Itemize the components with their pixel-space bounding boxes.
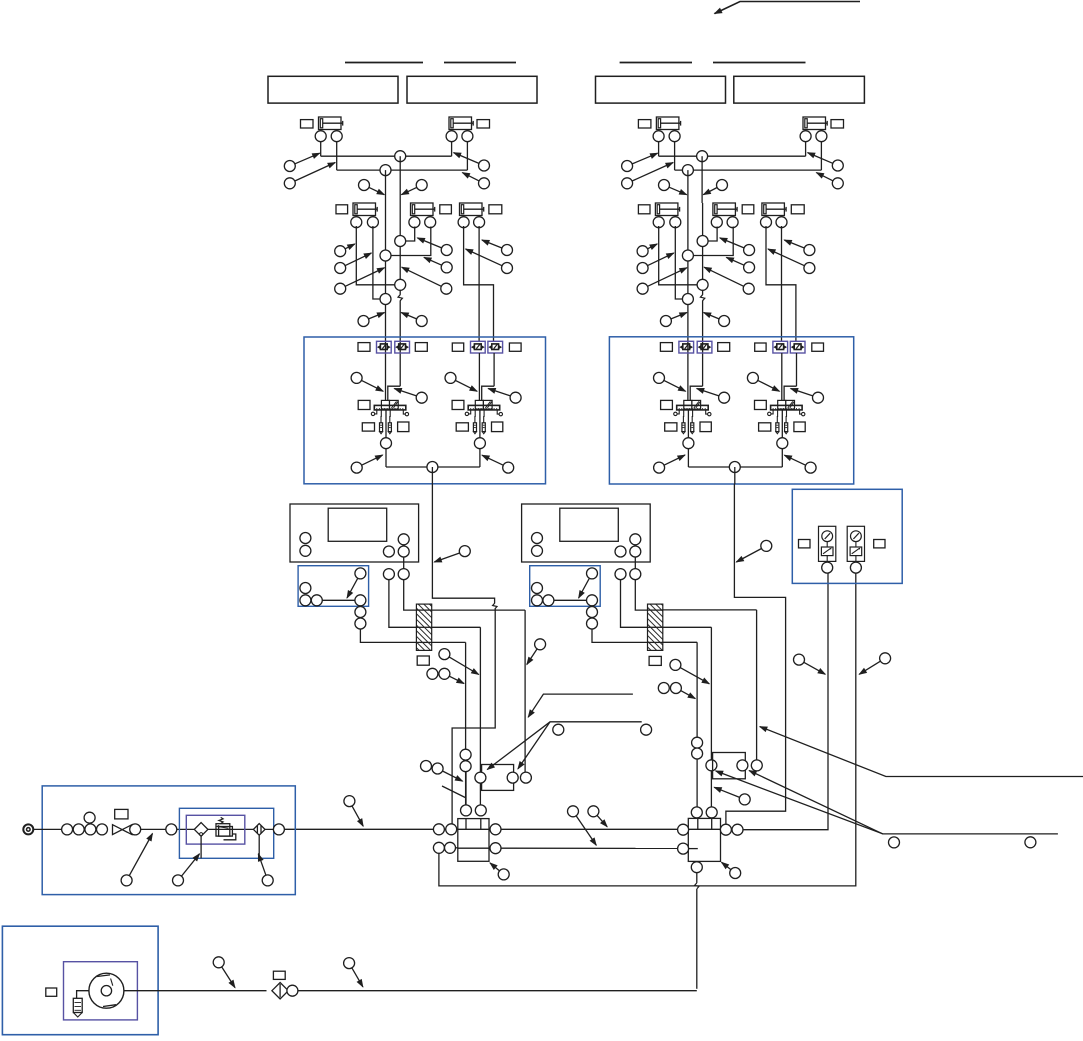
bus wire 1 [659,155,806,157]
balloon pair [421,761,432,772]
cylinder (mid left) [653,203,681,228]
shutoff valve [113,825,123,835]
solenoid valve 1 [371,400,408,433]
union manifold left [482,765,514,791]
outlet bus [386,466,480,468]
balloon tee top [475,805,486,816]
balloon [532,545,543,556]
quick-disconnect [395,341,410,353]
callout [622,163,674,189]
wire down [756,610,758,760]
wire [634,545,636,569]
wire [674,142,676,170]
callout [284,163,335,189]
balloon inline [697,236,708,247]
balloon inline [380,294,391,305]
label [700,422,711,432]
wire [663,609,757,611]
callout [568,806,597,846]
callout [358,313,385,327]
balloon tee right [720,824,731,835]
bus wire [501,828,678,830]
balloon [398,546,409,557]
stray leader segment [442,786,465,798]
callout [490,863,509,880]
wire down [687,170,689,203]
supply wire [399,301,401,387]
callout [121,834,152,886]
cylinder label [336,205,348,214]
balloon [587,607,598,618]
wire [658,142,660,157]
bus wire [501,847,678,849]
label [492,422,503,432]
callout [654,455,685,473]
line break [700,295,704,301]
wire to gland [404,580,417,611]
tee drain to gauge 2 line [439,573,856,886]
cylinder label [638,205,650,214]
callout [670,659,709,683]
cylinder (mid center) [711,203,738,228]
cylinder label [791,205,804,214]
supply wire [781,353,783,400]
wire balloon to cyl2 port [708,227,717,242]
callout [768,249,815,274]
callout [726,257,754,273]
callout [439,668,464,683]
label [398,422,409,432]
solenoid valve 2 [768,400,805,433]
callout [335,253,372,274]
callout [720,238,755,256]
leader A to page edge [760,727,1083,777]
callout [784,240,815,256]
wire to gland [592,629,648,642]
balloon tee left [678,824,689,835]
pump assembly box [2,926,158,1034]
label [358,343,370,352]
quick-disconnect [697,341,712,353]
balloon [85,824,96,835]
wire to box edge [734,467,736,484]
callout [173,854,200,886]
label [273,971,285,979]
balloon union port [737,760,748,771]
callout [488,389,521,404]
balloon [300,583,311,594]
cylinder label [638,120,651,128]
label [509,343,521,351]
wire cyl3 port2 [478,226,480,341]
balloon inline [395,236,406,247]
pump discharge line [124,990,267,992]
balloon [355,618,366,629]
wire [320,142,322,157]
balloon [630,546,641,557]
display rect [328,508,387,541]
display rect [560,508,619,541]
callout [402,267,452,294]
balloon [73,824,84,835]
callout [466,249,513,274]
callout [714,787,750,805]
callout [401,313,427,327]
label [661,400,673,409]
wire [432,626,481,628]
bulkhead gland left [416,604,431,650]
wire [466,142,468,170]
cylinder label [301,120,314,128]
callout [722,862,741,878]
sensor box [298,566,369,607]
label [115,809,128,819]
label [794,422,805,432]
drain wire [258,835,260,858]
wire cyl3 port2 [781,226,783,341]
wire cyl port to balloon [373,226,380,299]
label [358,400,370,409]
balloon tee right [490,824,501,835]
label [812,343,824,351]
balloon valve outlet [474,438,485,449]
callout [439,649,479,675]
wire to box edge [431,467,433,484]
callout [697,389,730,404]
balloon valve outlet [381,438,392,449]
label [456,423,468,431]
pump inner box [64,962,138,1020]
balloon pair [658,683,669,694]
valve box1 outlet pipe [432,484,494,603]
callout [736,540,772,562]
label [799,540,811,548]
balloon [532,583,543,594]
balloon [311,595,322,606]
wire down [465,642,467,805]
wire to tee [452,609,495,824]
balloon union port [475,772,486,783]
callout [351,455,382,473]
cylinder label [742,205,754,214]
regulator group box [186,815,245,844]
wire [385,449,387,467]
quick-disconnect [471,341,486,353]
callout [637,244,657,257]
balloon inline [395,279,406,290]
leader L3 with two arrows [487,722,641,770]
wire balloon to cyl2 port [391,227,431,256]
cylinder (upper right) [800,117,827,142]
balloon pair [427,668,438,679]
supply wire [399,203,401,295]
callout [637,268,687,295]
wire cyl port to balloon [675,226,682,299]
cylinder label [489,205,502,214]
callout [347,568,366,598]
label box [407,76,537,103]
control unit box [290,504,419,562]
regulator body [216,824,230,836]
wire cyl port to balloon [659,226,697,285]
label box [596,76,726,103]
label [452,343,463,351]
callout [704,313,730,327]
bus wire 2 [675,169,822,171]
cylinder label [477,120,490,128]
balloon under leader [641,724,652,735]
caption underline [345,62,423,64]
callout [527,639,546,665]
balloon tee top [691,807,702,818]
cylinder (mid right) [458,203,485,228]
cylinder label [440,205,452,214]
wire [663,641,697,643]
solenoid valve 2 [465,400,502,433]
callout [660,313,687,327]
balloon [446,824,457,835]
gland crossing segments [416,609,431,611]
wire [820,142,822,170]
supply jog wire [482,386,494,400]
valve outlet wire [781,410,783,438]
pump [89,973,124,1008]
quick-disconnect [679,341,694,353]
balloon [300,533,311,544]
wire to gland [389,580,417,628]
callout [424,257,452,273]
wire down [701,156,703,203]
callout [482,455,514,473]
regulator body 2 [219,827,233,837]
balloon [532,533,543,544]
valve module box [609,337,853,484]
callout [213,957,235,988]
title leader line [715,2,861,14]
callout [401,180,427,195]
wire [805,142,807,157]
wire [687,449,689,467]
wire cyl port to balloon [356,226,394,285]
quick-disconnect [488,341,503,353]
supply jog wire [690,386,702,400]
cylinder (mid center) [409,203,436,228]
balloon [383,569,394,580]
balloon tee right [490,843,501,854]
balloon [445,842,456,853]
valve outlet wire [479,410,481,438]
balloon under leader [1025,837,1036,848]
wire to gland [621,580,648,628]
label [874,540,885,548]
gauge panel box [792,489,902,583]
callout [659,180,687,195]
check valve [272,983,288,999]
cylinder (upper left) [315,117,343,142]
supply bus into tee [284,828,458,830]
balloon [587,595,598,606]
bus wire 2 [337,169,468,171]
balloon [383,546,394,557]
line break [398,295,402,301]
cylinder (upper right) [446,117,473,142]
control unit box [522,504,651,562]
cylinder (mid left) [351,203,379,228]
callout [434,546,470,562]
wire [403,545,405,569]
wire down [385,170,387,203]
caption underline [713,62,806,64]
balloon valve outlet [683,438,694,449]
wire down [710,627,712,807]
filter element 2 (check) [253,824,265,836]
outlet bus [688,466,782,468]
wire [336,142,338,170]
label [649,656,661,665]
balloon [398,534,409,545]
wire balloon to cyl2 port [406,227,415,242]
label [46,988,57,996]
label [417,656,429,665]
cylinder (upper left) [653,117,681,142]
callout [808,153,844,171]
callout [859,653,890,675]
valve box2 outlet pipe [726,484,786,824]
balloon on bus2 [380,165,391,176]
balloon inline [692,748,703,759]
valve outlet wire [687,410,689,438]
supply wire [796,353,798,386]
filter-regulator box [179,808,273,858]
callout [816,173,843,189]
wire [781,449,783,467]
caption underline [620,62,692,64]
callout [344,958,363,987]
balloon [166,824,177,835]
balloon [615,546,626,557]
label [415,343,427,352]
supply jog wire [388,386,400,400]
sensor box [530,566,601,607]
label box [268,76,398,103]
balloon on bus1 [395,151,406,162]
callout [791,389,824,404]
supply wire [702,203,704,295]
wire [132,828,166,830]
balloon inline [697,279,708,290]
quick-disconnect [377,341,392,353]
callout [622,153,658,171]
wire down [479,627,481,772]
balloon [433,824,444,835]
balloon [97,824,108,835]
balloon [300,595,311,606]
balloon inline [706,760,717,771]
callout [588,806,607,827]
quick-disconnect [773,341,788,353]
balloon on bus1 [697,151,708,162]
balloon [433,842,444,853]
wire balloon to cyl2 port [693,227,733,256]
quick-disconnect [790,341,805,353]
wire to gland [360,629,416,642]
jog break [493,603,497,609]
wire [432,641,466,643]
balloon tee left [678,843,689,854]
callout [703,180,727,195]
balloon union port [751,760,762,771]
balloon [300,545,311,556]
callout [344,796,363,827]
wires above tee [465,772,467,805]
balloon [130,824,141,835]
wire [554,599,587,601]
bus wire 1 [321,155,452,157]
balloon [543,595,554,606]
leader L2 [528,694,633,717]
wire cyl3 port1 [464,226,494,341]
balloon outlet [427,462,438,473]
callout [284,153,319,171]
callout [482,240,513,256]
balloon [615,569,626,580]
supply jog wire [784,386,796,400]
balloon [273,824,284,835]
callout [637,253,674,274]
callout [445,372,477,391]
callout [359,180,385,195]
balloon [355,595,366,606]
wire [663,626,712,628]
balloon [587,618,598,629]
tee fitting right [688,818,720,861]
filter element 1 [194,823,208,837]
balloon [532,595,543,606]
label [452,400,464,409]
wire [451,142,453,157]
gauge unit 1 [819,526,836,573]
inlet port symbol [23,824,33,834]
union manifold right [713,753,746,779]
callout [670,683,695,699]
supply wire [687,203,689,400]
label [759,423,771,431]
balloon tee bottom [691,862,702,873]
valve module box [304,337,546,484]
balloon inline [682,294,693,305]
wire to tee2 drain [298,990,697,992]
label [755,400,767,409]
balloon [287,985,298,996]
callout [747,372,779,391]
label [718,343,730,352]
callout [394,389,427,404]
cylinder label [831,120,844,128]
bus tee2 to gauge1 [743,573,828,830]
supply wire [493,353,495,386]
balloon tee top [706,807,717,818]
callout [462,173,489,189]
balloon inline [460,749,471,760]
supply wire [385,203,387,400]
callout [335,244,355,257]
wire down [696,642,698,807]
callout [417,238,452,256]
wire [322,599,355,601]
balloon tee top [461,805,472,816]
wire cyl3 port1 [766,226,796,341]
wire down [524,610,526,772]
